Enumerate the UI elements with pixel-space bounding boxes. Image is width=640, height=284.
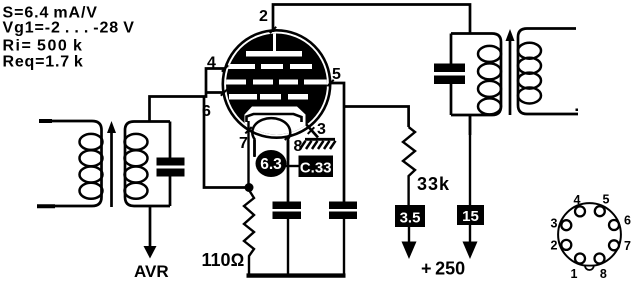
svg-text:8: 8: [294, 138, 303, 155]
svg-text:3: 3: [551, 217, 558, 231]
svg-text:110Ω: 110Ω: [202, 250, 245, 270]
svg-text:6.3: 6.3: [260, 156, 282, 173]
svg-text:5: 5: [332, 66, 341, 83]
svg-text:15: 15: [462, 208, 479, 225]
svg-text:4: 4: [207, 55, 216, 72]
svg-text:+ 250: + 250: [421, 259, 465, 279]
svg-text:33k: 33k: [417, 174, 450, 194]
svg-text:2: 2: [551, 239, 558, 253]
svg-text:AVR: AVR: [134, 262, 169, 281]
svg-text:C.33: C.33: [300, 160, 332, 177]
svg-text:Ri= 500 k: Ri= 500 k: [3, 38, 84, 55]
svg-text:6: 6: [202, 103, 211, 120]
svg-text:Vg1=-2 . . . -28 V: Vg1=-2 . . . -28 V: [3, 20, 135, 37]
svg-text:7: 7: [624, 239, 631, 253]
svg-text:3: 3: [317, 121, 326, 138]
svg-text:4: 4: [574, 193, 581, 207]
svg-text:3.5: 3.5: [400, 210, 421, 227]
svg-text:2: 2: [259, 8, 268, 25]
svg-text:6: 6: [624, 214, 631, 228]
svg-text:8: 8: [600, 267, 607, 281]
svg-text:Req=1.7 k: Req=1.7 k: [3, 54, 84, 71]
svg-text:5: 5: [603, 193, 610, 207]
svg-text:7: 7: [239, 135, 248, 152]
svg-text:1: 1: [571, 267, 578, 281]
